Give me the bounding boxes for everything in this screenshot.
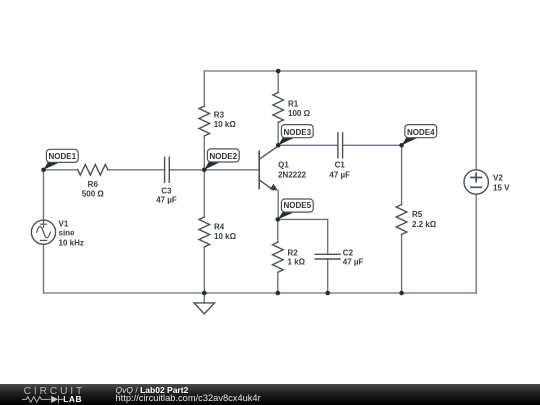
svg-text:R4: R4 [214, 223, 225, 232]
svg-text:15 V: 15 V [493, 183, 510, 192]
svg-text:C3: C3 [161, 186, 172, 195]
svg-text:100 Ω: 100 Ω [288, 109, 311, 118]
svg-text:10 kHz: 10 kHz [59, 238, 84, 247]
svg-text:47 µF: 47 µF [329, 170, 350, 179]
svg-text:V2: V2 [493, 174, 503, 183]
svg-text:sine: sine [59, 229, 76, 238]
svg-text:1 kΩ: 1 kΩ [288, 258, 306, 267]
svg-text:2N2222: 2N2222 [278, 170, 307, 179]
svg-text:R2: R2 [288, 248, 299, 257]
svg-text:47 µF: 47 µF [343, 258, 364, 267]
svg-text:NODE5: NODE5 [284, 201, 312, 210]
svg-text:R1: R1 [288, 100, 299, 109]
svg-text:NODE2: NODE2 [210, 152, 238, 161]
svg-text:10 kΩ: 10 kΩ [214, 232, 237, 241]
svg-text:47 µF: 47 µF [156, 196, 177, 205]
svg-text:R6: R6 [88, 180, 99, 189]
svg-text:R3: R3 [214, 110, 225, 119]
svg-text:NODE1: NODE1 [49, 152, 77, 161]
svg-text:NODE3: NODE3 [284, 128, 312, 137]
svg-text:C1: C1 [335, 160, 346, 169]
svg-text:10 kΩ: 10 kΩ [214, 120, 237, 129]
svg-text:Q1: Q1 [278, 160, 289, 169]
svg-text:2.2 kΩ: 2.2 kΩ [412, 220, 437, 229]
svg-text:V1: V1 [59, 219, 69, 228]
svg-text:C2: C2 [343, 248, 354, 257]
svg-text:NODE4: NODE4 [407, 128, 435, 137]
svg-text:LAB: LAB [63, 394, 82, 404]
svg-text:R5: R5 [412, 210, 423, 219]
svg-text:500 Ω: 500 Ω [82, 190, 105, 199]
